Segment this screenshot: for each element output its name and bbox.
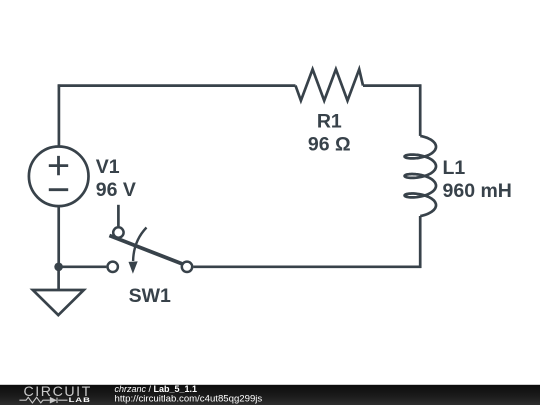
voltage source V1 [29,147,89,207]
wire junction to switch left terminal [59,265,107,268]
svg-text:SW1: SW1 [129,285,171,307]
wire switch top stub [117,205,120,227]
svg-text:V1: V1 [96,156,120,178]
wire left vertical V1 top [58,84,61,146]
logo resistor-diode glyph [19,397,67,403]
logo diode triangle [50,397,57,404]
wire V1 bottom to junction [57,206,60,267]
svg-text:L1: L1 [443,157,466,179]
switch SW1 toggle arc [133,228,146,262]
V1 plus sign [49,156,68,175]
svg-text:96 V: 96 V [96,179,136,201]
switch SW1 right terminal [182,262,192,272]
wire ground stub [57,267,60,290]
svg-text:R1: R1 [317,111,342,133]
inductor L1 [405,136,436,216]
svg-text:LAB: LAB [69,397,91,404]
svg-text:96 Ω: 96 Ω [308,134,351,156]
wire top-left horizontal to resistor [58,84,296,87]
wire resistor to top-right corner [363,84,421,87]
ground [33,290,84,315]
switch SW1 blade [109,236,183,265]
junction dot [54,263,63,272]
resistor R1 [296,69,364,100]
switch SW1 arrowhead [129,261,138,273]
wire switch right terminal to bottom-right corner [193,265,421,268]
wire top-right vertical to inductor [419,84,422,135]
V1 minus sign [49,188,68,191]
wire inductor bottom to bottom-right corner [419,216,422,268]
svg-text:960 mH: 960 mH [443,180,512,202]
switch SW1 top terminal [113,227,123,237]
svg-text:http://circuitlab.com/c4ut85qg: http://circuitlab.com/c4ut85qg299js [115,393,263,404]
switch SW1 left terminal [108,262,118,272]
